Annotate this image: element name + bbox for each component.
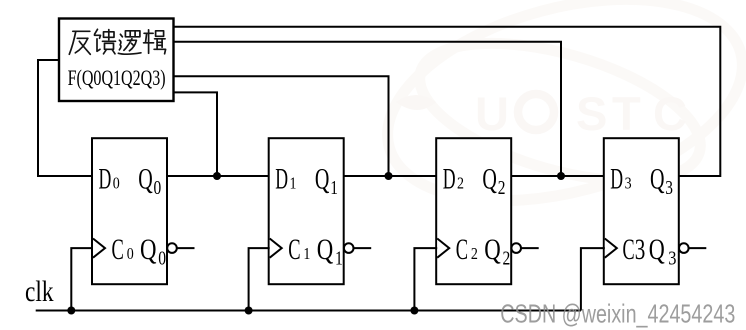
svg-text:C: C: [653, 87, 687, 140]
node clk tap FF1: [245, 307, 253, 315]
svg-text:F(Q0Q1Q2Q3): F(Q0Q1Q2Q3): [68, 65, 166, 90]
svg-text:0: 0: [113, 173, 120, 192]
svg-text:1: 1: [290, 173, 297, 192]
inversion bubble FF1: [344, 243, 354, 253]
wire clk to C3: [581, 248, 605, 310]
svg-text:1: 1: [330, 177, 338, 199]
clock input triangle FF3: [605, 239, 617, 258]
svg-text:C: C: [288, 233, 300, 266]
node Q0 junction: [213, 172, 221, 180]
svg-text:Q: Q: [649, 233, 665, 266]
wire clk to C2: [414, 248, 437, 310]
feedback logic block F: [59, 19, 174, 102]
svg-text:D: D: [610, 162, 623, 195]
wire clk bus: [36, 310, 581, 312]
svg-text:Q: Q: [317, 233, 334, 266]
inversion bubble FF3: [679, 243, 689, 253]
svg-text:3: 3: [625, 173, 632, 192]
svg-text:C: C: [112, 233, 124, 266]
D flip-flop FF2: [436, 138, 511, 284]
svg-text:3: 3: [668, 248, 676, 270]
inversion bubble FF2: [511, 243, 521, 253]
svg-text:3: 3: [635, 233, 646, 266]
node clk tap FF2: [410, 307, 418, 315]
svg-text:D: D: [275, 162, 288, 195]
clock input triangle FF0: [93, 239, 105, 258]
wire Q1 feedback tap to F: [174, 76, 389, 176]
svg-text:T: T: [612, 87, 641, 140]
svg-text:0: 0: [154, 177, 162, 199]
svg-text:Q: Q: [140, 233, 157, 266]
svg-text:2: 2: [457, 173, 464, 192]
svg-text:clk: clk: [25, 276, 54, 308]
wire Q1-bar stub: [354, 247, 372, 249]
svg-text:1: 1: [335, 248, 343, 270]
svg-text:C: C: [623, 233, 635, 266]
wire clk to C0: [71, 248, 93, 310]
svg-text:S: S: [576, 87, 607, 140]
clock input triangle FF1: [270, 239, 282, 258]
svg-text:D: D: [99, 162, 112, 195]
clock input triangle FF2: [437, 239, 449, 258]
wire F output to D0: [38, 60, 92, 176]
svg-text:0: 0: [158, 248, 166, 270]
svg-text:Q: Q: [484, 233, 501, 266]
D flip-flop FF1: [269, 138, 344, 284]
wire Q3-bar stub: [689, 247, 707, 249]
node Q2 junction: [557, 172, 565, 180]
wire Q2 feedback tap to F: [174, 42, 562, 176]
D flip-flop FF3: [604, 138, 679, 284]
svg-text:3: 3: [665, 177, 673, 199]
wire clk to C1: [249, 248, 270, 310]
svg-text:C: C: [456, 233, 468, 266]
svg-text:2: 2: [503, 248, 511, 270]
svg-text:2: 2: [471, 244, 478, 263]
svg-text:CSDN @weixin_42454243: CSDN @weixin_42454243: [500, 299, 735, 329]
wire Q0 to D1: [167, 175, 269, 177]
svg-text:Q: Q: [138, 162, 153, 195]
wire Q0-bar stub: [177, 247, 195, 249]
D flip-flop FF0: [92, 138, 167, 284]
svg-text:Q: Q: [650, 162, 665, 195]
label fan-kui-luo-ji (feedback logic): [69, 29, 165, 54]
wire Q3 to F: [174, 27, 721, 176]
node Q1 junction: [385, 172, 393, 180]
wire Q2-bar stub: [521, 247, 539, 249]
node clk tap FF0: [67, 307, 75, 315]
svg-text:Q: Q: [315, 162, 330, 195]
wire Q1 to D2: [344, 175, 437, 177]
svg-text:2: 2: [498, 177, 506, 199]
wire Q0 feedback tap to F: [174, 92, 218, 176]
svg-text:D: D: [443, 162, 456, 195]
svg-text:Q: Q: [482, 162, 497, 195]
wire Q2 to D3: [511, 175, 604, 177]
svg-text:0: 0: [127, 244, 134, 263]
svg-text:1: 1: [303, 244, 310, 263]
inversion bubble FF0: [167, 243, 177, 253]
svg-text:U: U: [475, 87, 509, 140]
